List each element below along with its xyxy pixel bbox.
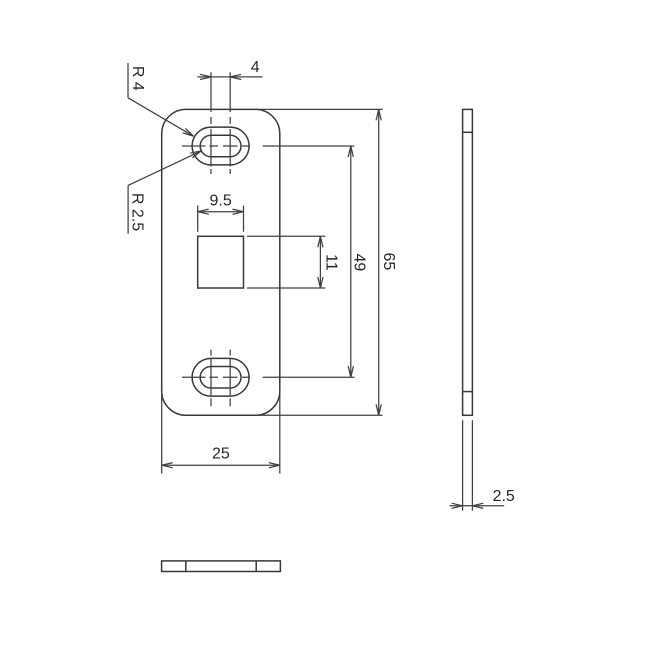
svg-text:4: 4 xyxy=(251,59,260,76)
svg-text:65: 65 xyxy=(380,253,397,271)
svg-text:R 4: R 4 xyxy=(129,66,146,91)
svg-text:9.5: 9.5 xyxy=(209,193,231,210)
svg-text:2.5: 2.5 xyxy=(493,488,515,505)
svg-text:49: 49 xyxy=(350,254,367,272)
svg-text:11: 11 xyxy=(322,254,339,271)
svg-text:25: 25 xyxy=(212,446,230,463)
svg-text:R 2.5: R 2.5 xyxy=(129,193,146,231)
